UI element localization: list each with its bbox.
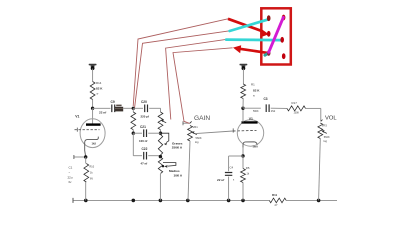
svg-text:22 uf: 22 uf xyxy=(217,178,225,182)
svg-text:1mA: 1mA xyxy=(253,145,259,148)
svg-text:R5: R5 xyxy=(246,166,250,170)
svg-text:27: 27 xyxy=(275,203,278,207)
svg-text:100K: 100K xyxy=(294,112,300,115)
svg-text:100 nf: 100 nf xyxy=(139,139,147,143)
svg-text:560K: 560K xyxy=(324,136,330,139)
svg-text:R14: R14 xyxy=(96,81,102,85)
svg-text:V1: V1 xyxy=(75,115,79,119)
svg-text:220 pf: 220 pf xyxy=(141,114,149,118)
svg-text:82 K: 82 K xyxy=(96,87,103,91)
svg-text:250K A: 250K A xyxy=(172,145,183,149)
svg-text:10K A: 10K A xyxy=(174,174,183,178)
svg-text:6V: 6V xyxy=(90,178,93,181)
svg-text:GAIN: GAIN xyxy=(194,115,210,122)
svg-text:V1: V1 xyxy=(249,117,253,121)
svg-text:R10: R10 xyxy=(90,166,95,169)
svg-text:C9: C9 xyxy=(111,100,115,104)
svg-text:C4: C4 xyxy=(230,165,234,169)
svg-text:log: log xyxy=(195,140,199,144)
svg-text:82 K: 82 K xyxy=(253,89,260,93)
svg-text:C22: C22 xyxy=(142,147,148,151)
svg-text:22u: 22u xyxy=(68,176,73,180)
svg-text:560K: 560K xyxy=(196,136,202,140)
svg-text:22 nf: 22 nf xyxy=(99,111,107,115)
svg-text:R17: R17 xyxy=(292,101,298,105)
svg-text:R11: R11 xyxy=(272,193,278,197)
svg-text:560K: 560K xyxy=(253,110,259,113)
svg-text:C3: C3 xyxy=(264,97,268,101)
svg-text:R1: R1 xyxy=(251,83,255,87)
svg-text:VR1: VR1 xyxy=(193,125,199,129)
svg-text:VOL: VOL xyxy=(325,115,337,121)
svg-text:Medios: Medios xyxy=(169,169,180,173)
svg-text:C20: C20 xyxy=(141,100,147,104)
svg-text:47 nf: 47 nf xyxy=(141,161,148,165)
svg-text:C1: C1 xyxy=(69,166,73,170)
svg-text:C21: C21 xyxy=(140,125,146,129)
svg-text:2N2: 2N2 xyxy=(271,110,276,113)
svg-text:1k5: 1k5 xyxy=(92,141,97,145)
svg-text:w: w xyxy=(97,93,99,96)
svg-text:w: w xyxy=(253,95,255,98)
